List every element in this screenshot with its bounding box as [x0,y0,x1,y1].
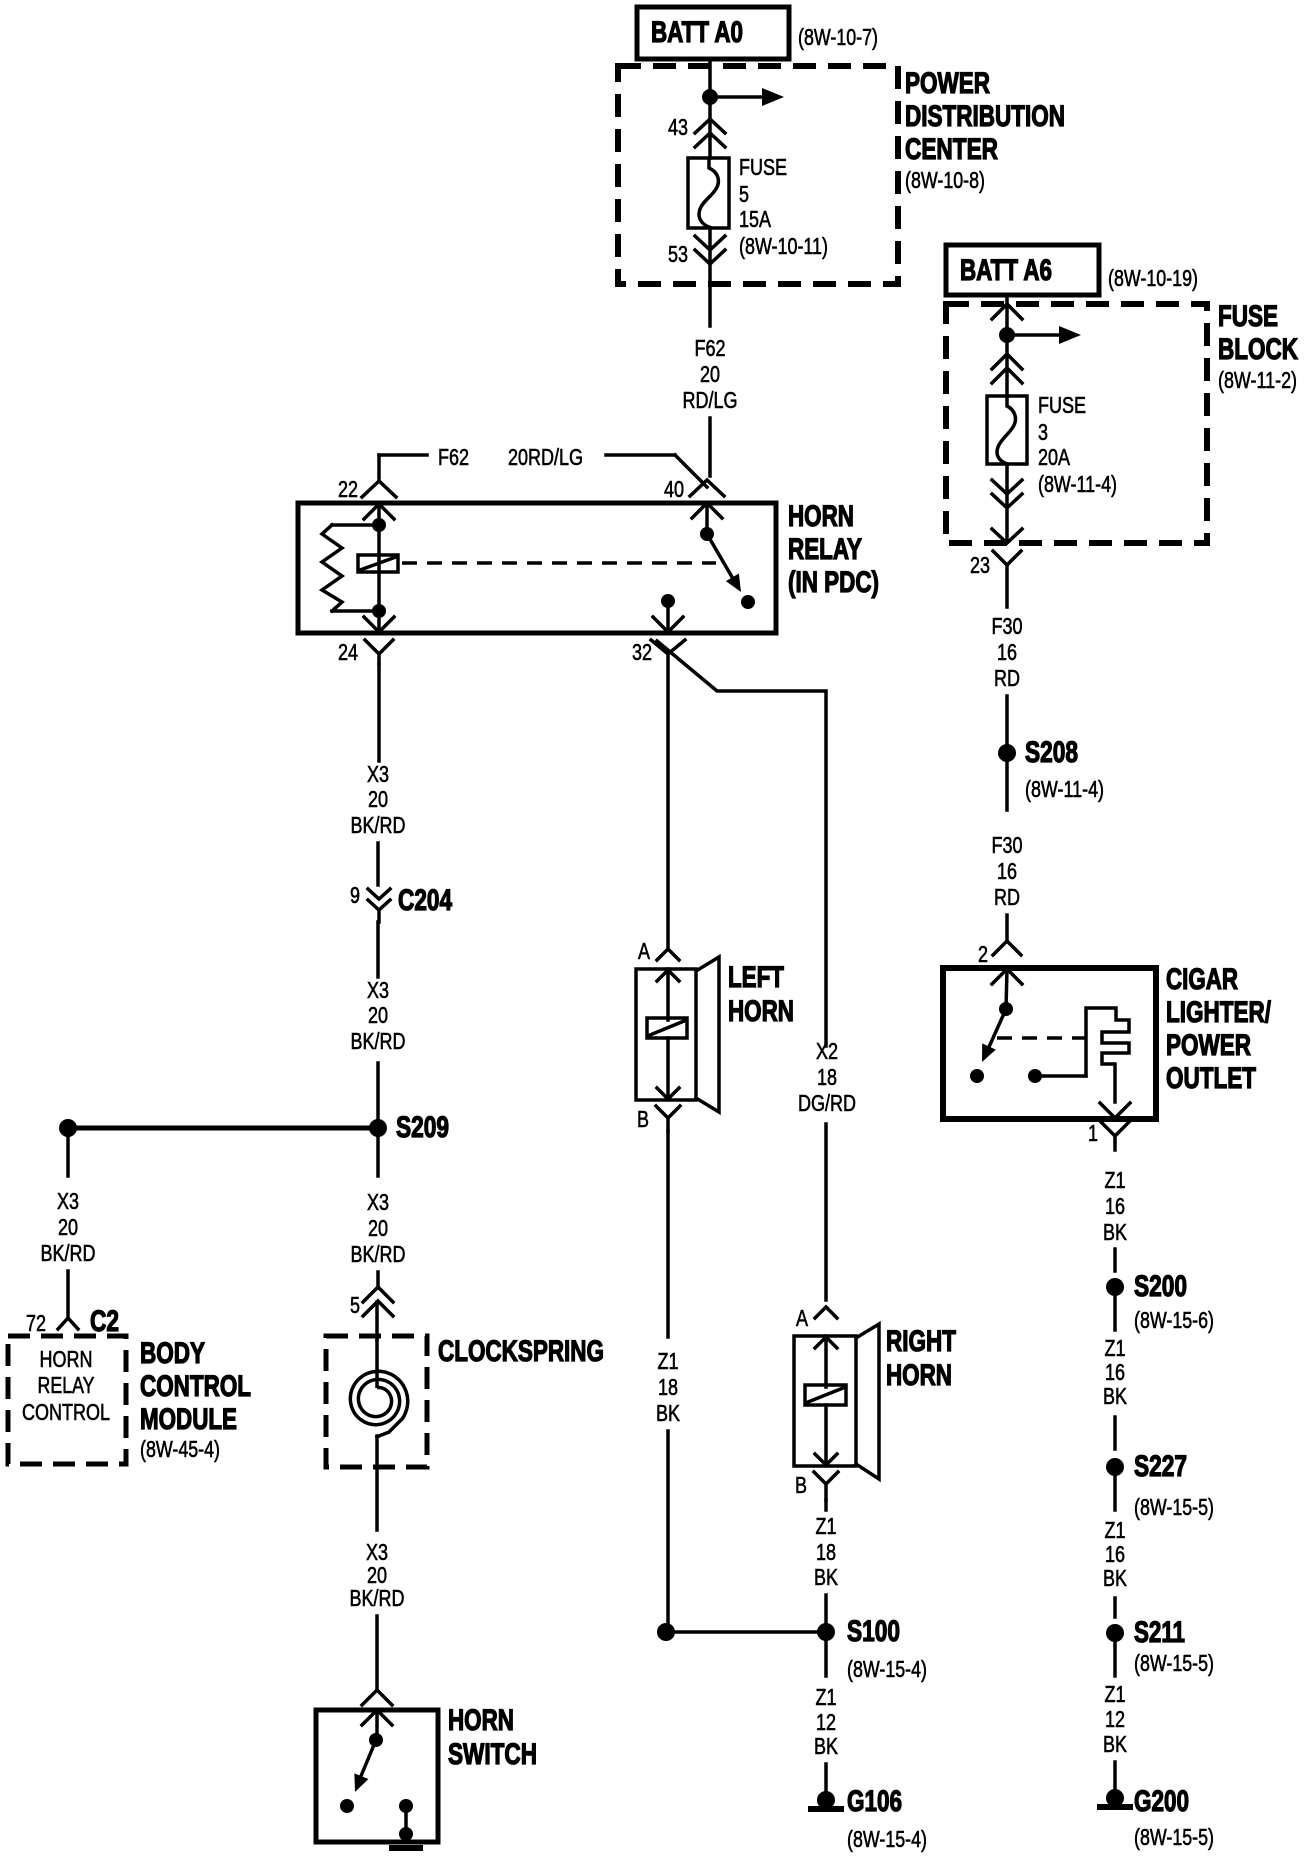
wire to cigar lighter pin 2 [1005,915,1009,941]
wire to S209 [376,1063,380,1120]
wire S209 to BCM [66,1128,70,1176]
connector C204 pin 9 [350,882,452,922]
wire S227 down [1113,1476,1117,1510]
svg-text:CIGAR: CIGAR [1166,963,1238,996]
connector BATT A0 [637,7,878,59]
cigar switch arm [982,1009,1006,1062]
svg-text:BATT A6: BATT A6 [960,254,1052,287]
wire relay coil vertical [377,504,381,632]
fuse block dashed box [946,300,1298,543]
wire element return [1035,1074,1086,1078]
svg-text:(8W-15-5): (8W-15-5) [1134,1824,1214,1850]
pin 24 arrow inside relay [364,617,394,632]
svg-text:Z1: Z1 [1105,1167,1126,1193]
svg-text:16: 16 [1105,1359,1125,1385]
svg-text:5: 5 [350,1292,360,1318]
svg-text:(IN PDC): (IN PDC) [788,566,879,599]
wire clockspring output [375,1436,379,1530]
svg-text:20: 20 [368,786,388,812]
clockspring coil spiral [350,1336,407,1437]
pin 23 connector [970,551,1021,607]
wire into clockspring [375,1302,379,1340]
node horn switch ground contact [399,1799,413,1813]
horn switch pin connector [362,1690,392,1705]
node coil top [372,518,386,532]
svg-text:BK: BK [814,1733,839,1759]
svg-text:18: 18 [817,1064,837,1090]
ground G106 [808,1785,927,1852]
svg-text:S211: S211 [1134,1616,1185,1649]
node S209 left [59,1119,77,1137]
wire horn switch input [375,1710,379,1740]
svg-text:(8W-15-5): (8W-15-5) [1134,1494,1214,1520]
svg-text:HORN: HORN [886,1359,952,1392]
wire label X3 20 BK/RD [351,1189,406,1267]
svg-text:DISTRIBUTION: DISTRIBUTION [905,100,1065,133]
svg-text:20A: 20A [1038,444,1071,470]
node switch NO contact [741,595,755,609]
fuse 5 15A [688,154,828,259]
svg-text:HORN: HORN [728,995,794,1028]
svg-text:SWITCH: SWITCH [448,1738,537,1771]
wire label F30 16 RD [992,613,1023,691]
svg-text:(8W-10-7): (8W-10-7) [798,24,878,50]
wire feed arrow right [710,88,784,106]
svg-text:(8W-10-8): (8W-10-8) [905,167,985,193]
svg-text:23: 23 [970,552,990,578]
svg-text:24: 24 [338,639,358,665]
right horn pin A connector [796,1305,837,1331]
svg-text:(8W-15-4): (8W-15-4) [847,1826,927,1852]
svg-text:HORN: HORN [788,500,854,533]
svg-text:15A: 15A [739,206,772,232]
svg-text:2: 2 [978,941,988,967]
node switch output [661,594,675,608]
wire S209 to clockspring [376,1128,380,1176]
svg-text:BK: BK [814,1564,839,1590]
dashed actuation line cigar [997,1036,1086,1040]
svg-text:C2: C2 [90,1305,119,1338]
svg-text:HORN: HORN [40,1346,93,1372]
fuse 3 20A [987,392,1117,497]
svg-text:RD/LG: RD/LG [683,387,738,413]
svg-text:16: 16 [1105,1541,1125,1567]
svg-text:(8W-15-6): (8W-15-6) [1134,1307,1214,1333]
svg-text:12: 12 [1105,1706,1125,1732]
svg-text:3: 3 [1038,419,1048,445]
wire BATT A6 into fuse block [1005,297,1009,396]
svg-text:S208: S208 [1025,736,1078,769]
svg-text:G106: G106 [847,1785,902,1818]
svg-text:A: A [638,938,651,964]
wire label Z1 18 BK [814,1513,839,1590]
svg-text:BK/RD: BK/RD [41,1240,96,1266]
svg-text:9: 9 [350,882,360,908]
left horn pin A connector [638,938,679,964]
dashed actuation line [402,561,716,565]
resistor in relay [322,525,379,611]
pin arrow at fuse block bottom edge [992,529,1022,543]
wire S100 down [824,1641,828,1676]
svg-text:RELAY: RELAY [788,533,862,566]
pin arrow inside cigar lighter [992,969,1022,984]
svg-text:MODULE: MODULE [140,1403,237,1436]
svg-text:BK: BK [1103,1565,1128,1591]
svg-text:18: 18 [816,1539,836,1565]
svg-text:BK/RD: BK/RD [351,1241,406,1267]
wire label F62 20 RD/LG [683,335,738,413]
svg-text:F62: F62 [438,444,469,470]
node cigar switch contact [970,1069,984,1083]
wire C204 down [376,922,380,977]
node horn switch contact [340,1799,354,1813]
svg-text:X3: X3 [367,1189,389,1215]
svg-text:16: 16 [1105,1193,1125,1219]
svg-text:F30: F30 [992,832,1023,858]
pin 22 connector [338,476,396,502]
svg-text:FUSE: FUSE [1038,392,1086,418]
svg-text:72: 72 [26,1310,46,1336]
svg-text:Z1: Z1 [658,1348,679,1374]
wire to S211 [1113,1598,1117,1617]
svg-text:RELAY: RELAY [38,1372,95,1398]
svg-text:40: 40 [664,476,684,502]
svg-text:C204: C204 [398,884,452,917]
svg-text:32: 32 [632,639,652,665]
body control module dashed box [8,1336,251,1464]
pin 32 arrow inside relay [653,617,683,632]
node switch common [700,527,714,541]
wire pin 32 to left horn [666,654,670,947]
node horn switch common [369,1733,383,1747]
node splice in fuse block [999,327,1015,343]
pin 22 arrow inside relay [364,504,394,519]
svg-text:F62: F62 [695,335,726,361]
horn switch arm [354,1740,376,1792]
node coil bottom [372,604,386,618]
wire fuse 3 to pin 23 [1005,464,1009,542]
svg-text:(8W-10-11): (8W-10-11) [739,233,828,259]
svg-text:POWER: POWER [905,67,990,100]
pin arrow at cigar bottom edge [1100,1103,1130,1118]
wire cigar switch input [1006,969,1007,1009]
svg-text:Z1: Z1 [1105,1681,1126,1707]
svg-text:BK/RD: BK/RD [350,1585,405,1611]
wire to G200 [1113,1762,1117,1790]
wire label Z1 16 BK [1103,1335,1128,1409]
wire label Z1 18 BK [656,1348,681,1426]
connector BATT A6 [946,245,1198,295]
svg-text:16: 16 [997,858,1017,884]
svg-text:BK: BK [1103,1219,1128,1245]
wire right horn to Z1 label [824,1500,828,1510]
svg-text:12: 12 [816,1709,836,1735]
svg-text:Z1: Z1 [816,1513,837,1539]
svg-text:20: 20 [58,1214,78,1240]
wire to S208 [1005,696,1009,745]
pin 32 connector [632,639,685,665]
splice S100 [817,1615,927,1682]
svg-text:(8W-11-4): (8W-11-4) [1038,471,1117,497]
wire S208 down [1005,762,1009,810]
svg-text:S200: S200 [1134,1270,1187,1303]
wire to S100 [824,1595,828,1624]
svg-text:LEFT: LEFT [728,961,784,994]
svg-text:POWER: POWER [1166,1029,1251,1062]
connector C2 pin 72 [26,1305,119,1338]
pin 5 connector [350,1287,393,1318]
svg-text:CONTROL: CONTROL [22,1399,110,1425]
svg-text:5: 5 [739,181,749,207]
wire F62 to relay pin 40 [708,418,712,476]
svg-text:Z1: Z1 [1105,1335,1126,1361]
left horn pin B connector [637,1106,680,1132]
pin 24 connector [338,639,393,665]
connector chevrons below fuse 3 [992,480,1022,508]
svg-text:BK: BK [1103,1731,1128,1757]
svg-text:1: 1 [1088,1120,1098,1146]
wire label Z1 16 BK [1103,1517,1128,1591]
left horn [636,957,794,1112]
pin 2 connector [978,941,1021,967]
svg-text:CONTROL: CONTROL [140,1370,251,1403]
svg-text:G200: G200 [1134,1785,1189,1818]
relay switch arm [707,534,741,592]
wire switch output to pin 32 [666,601,670,631]
svg-text:CLOCKSPRING: CLOCKSPRING [438,1335,604,1368]
wire fuse output F62 [708,228,712,326]
svg-text:BODY: BODY [140,1337,205,1370]
svg-text:RD: RD [994,884,1020,910]
right horn pin B connector [795,1472,838,1500]
power distribution center dashed box [618,66,1065,284]
svg-text:16: 16 [997,639,1017,665]
wire left horn to Z1 label [666,1131,670,1337]
svg-text:(8W-10-19): (8W-10-19) [1108,265,1198,291]
svg-text:S209: S209 [396,1111,449,1144]
pin arrow inside horn switch [362,1710,392,1725]
wire label X3 20 BK/RD [41,1188,96,1266]
ground G200 [1097,1785,1214,1850]
wire S209 horizontal [68,1126,378,1131]
svg-text:OUTLET: OUTLET [1166,1062,1256,1095]
splice S208 [998,736,1104,802]
cigar lighter box [943,963,1271,1119]
wire label X3 20 BK/RD [351,977,406,1054]
wire X2 to right horn [824,1124,828,1300]
svg-text:X3: X3 [367,977,389,1003]
right horn [794,1324,956,1479]
wire to S200 [1113,1249,1117,1271]
node left horn ground junction [657,1623,675,1641]
wire pin 24 down [377,664,381,761]
wire label X3 20 BK/RD [350,1539,405,1611]
wire switch common [705,503,709,534]
ground symbol in horn switch [389,1827,423,1851]
svg-text:(8W-15-5): (8W-15-5) [1134,1650,1214,1676]
wire to S227 [1113,1417,1117,1449]
svg-text:Z1: Z1 [816,1684,837,1710]
svg-text:BK: BK [656,1400,681,1426]
wire label Z1 16 BK [1103,1167,1128,1245]
pin 1 connector [1088,1120,1129,1150]
wire junction to S100 [666,1630,826,1634]
svg-text:F30: F30 [992,613,1023,639]
wire label X2 18 DG/RD [798,1038,856,1116]
node splice in PDC [702,89,718,105]
horn relay box [298,500,879,633]
wire F62 branch label to pin 22 [379,444,707,487]
svg-text:B: B [795,1472,807,1498]
wire label Z1 12 BK [1103,1681,1128,1757]
svg-text:20: 20 [700,361,720,387]
svg-text:X3: X3 [367,761,389,787]
splice S200 [1106,1270,1214,1333]
svg-text:(8W-45-4): (8W-45-4) [140,1436,220,1462]
wire pin 32 branch to right horn [657,641,826,1046]
svg-text:Z1: Z1 [1105,1517,1126,1543]
wire feed arrow right [1007,326,1081,344]
wire S200 down [1113,1296,1117,1330]
wire to C2 [66,1271,70,1318]
svg-text:HORN: HORN [448,1704,514,1737]
svg-text:B: B [637,1106,649,1132]
svg-text:FUSE: FUSE [739,154,787,180]
svg-text:43: 43 [668,114,688,140]
svg-text:(8W-11-4): (8W-11-4) [1025,776,1104,802]
svg-text:LIGHTER/: LIGHTER/ [1166,996,1271,1029]
wire to clockspring pin 5 [376,1272,380,1288]
wire to C204 [376,843,380,885]
svg-text:CENTER: CENTER [905,133,998,166]
connector chevrons above fuse 3 [992,354,1022,383]
svg-text:BLOCK: BLOCK [1218,333,1298,366]
svg-text:BK/RD: BK/RD [351,812,406,838]
clockspring dashed box [326,1335,604,1467]
relay coil [358,555,398,572]
wire label Z1 12 BK [814,1684,839,1759]
svg-text:(8W-11-2): (8W-11-2) [1218,367,1297,393]
svg-text:DG/RD: DG/RD [798,1090,856,1116]
svg-text:20: 20 [368,1215,388,1241]
pin arrow at fuse block edge [992,304,1022,319]
horn switch box [316,1704,537,1842]
node cigar element return [1028,1069,1042,1083]
svg-text:FUSE: FUSE [1218,300,1278,333]
svg-text:RD: RD [994,665,1020,691]
pin 53 connector [668,236,725,267]
svg-text:X3: X3 [57,1188,79,1214]
svg-text:S227: S227 [1134,1450,1187,1483]
svg-text:18: 18 [658,1374,678,1400]
svg-text:(8W-15-4): (8W-15-4) [847,1656,927,1682]
pin 43 connector [668,114,725,147]
node cigar switch common [999,1002,1013,1016]
svg-text:53: 53 [668,241,688,267]
svg-text:RIGHT: RIGHT [886,1325,956,1358]
splice S211 [1106,1616,1214,1676]
wire label F30 16 RD [992,832,1023,910]
svg-text:A: A [796,1305,809,1331]
wire to G106 [824,1764,828,1794]
svg-text:BK: BK [1103,1383,1128,1409]
wire S211 down [1113,1642,1117,1676]
svg-text:BK/RD: BK/RD [351,1028,406,1054]
wire to horn switch [375,1616,379,1690]
wire to ground in switch [404,1806,408,1834]
splice S209 [369,1111,449,1144]
svg-text:S100: S100 [847,1615,900,1648]
pin 40 connector [664,476,724,502]
svg-text:20: 20 [368,1002,388,1028]
pin 40 arrow inside relay [692,503,722,518]
splice S227 [1106,1450,1214,1520]
svg-text:22: 22 [338,476,358,502]
svg-text:BATT A0: BATT A0 [651,16,743,49]
wire BATT A0 feed [708,60,712,158]
svg-text:X2: X2 [816,1038,838,1064]
wire to S100 node [666,1431,670,1624]
cigar lighter heating element [1086,1008,1129,1102]
svg-text:20RD/LG: 20RD/LG [508,444,583,470]
wire label X3 20 BK/RD [351,761,406,838]
